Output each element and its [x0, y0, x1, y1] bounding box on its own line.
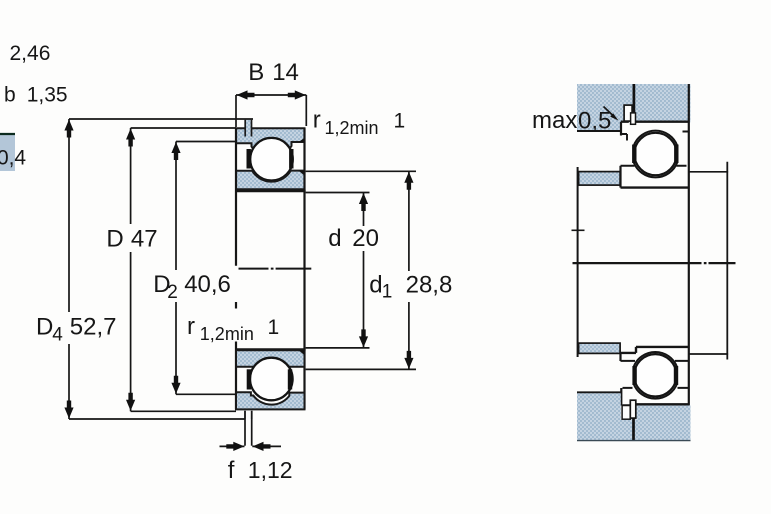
corner wedge inner ring top: [299, 171, 305, 176]
ball bottom right view: [634, 354, 676, 396]
housing bottom left lobe: [577, 392, 621, 441]
housing top block: [577, 84, 691, 122]
D2 arrow up: [171, 142, 180, 160]
housing top left lobe bottom edge: [577, 130, 621, 132]
inner ring bottom edge right view top: [621, 186, 690, 188]
cage bar bottom-right: [288, 369, 292, 389]
svg-text:1,35: 1,35: [27, 84, 68, 107]
housing bottom mid column: [620, 419, 636, 441]
shaft shoulder strip top: [579, 172, 621, 186]
svg-text:D: D: [36, 314, 53, 341]
ball top right view: [634, 133, 676, 175]
outer ring left face right view top: [620, 122, 622, 136]
corner wedge outer ring top: [299, 138, 305, 142]
bore bottom edge: [235, 348, 306, 350]
D2 arrow down: [171, 376, 180, 394]
ball top: [250, 138, 293, 181]
inner ring top edge right view bottom (stepped): [621, 347, 689, 353]
outer ring left face right view bottom: [620, 388, 622, 406]
outer ring lands top right view: [621, 132, 689, 141]
svg-text:1: 1: [382, 282, 393, 303]
svg-text:20: 20: [352, 225, 379, 252]
inner ring bottom lands right view: [621, 360, 689, 362]
raceway circle bottom right view: [633, 352, 677, 399]
snap ring side view bottom: [630, 400, 636, 418]
svg-text:52,7: 52,7: [70, 314, 117, 341]
svg-text:B: B: [248, 59, 264, 86]
f dimension: [220, 419, 282, 446]
inner ring top section: [236, 171, 305, 190]
D2 dimension: [176, 142, 236, 395]
svg-text:4: 4: [52, 325, 63, 346]
bearing right face line: [688, 84, 690, 441]
shaft shoulder strip bottom: [579, 343, 621, 353]
housing bottom edge: [577, 440, 691, 442]
left face line: [235, 128, 237, 409]
housing split line bottom: [632, 418, 635, 440]
f arrow left: [226, 442, 244, 451]
D4 arrow up: [64, 120, 73, 138]
cage bar top-left: [246, 149, 250, 169]
leader arrowhead: [610, 113, 618, 120]
reference tick top: [689, 171, 728, 173]
RIGHT-VIEW: [572, 84, 736, 441]
inner ring left face right view top: [619, 166, 621, 188]
outer ring top edge right view: [621, 120, 689, 122]
outer ring bottom edge right view: [623, 404, 689, 405]
cage bar bottom-left: [247, 369, 251, 389]
svg-text:1,2min: 1,2min: [325, 118, 379, 138]
snap groove notch bottom: [622, 406, 630, 420]
right face line: [303, 128, 305, 409]
svg-text:d: d: [369, 271, 382, 298]
svg-text:D: D: [106, 226, 123, 253]
housing bottom left lobe top edge: [577, 391, 621, 393]
svg-text:28,8: 28,8: [406, 271, 453, 298]
snap ring tab top: [245, 120, 251, 137]
D4 arrow down: [64, 401, 73, 419]
d dimension: [306, 193, 370, 348]
inner ring bottom section: [236, 350, 305, 377]
svg-text:2: 2: [167, 282, 178, 303]
corner wedge inner ring bottom: [299, 350, 305, 355]
svg-text:1,12: 1,12: [248, 457, 293, 483]
svg-text:r: r: [187, 313, 195, 340]
reference line right: [726, 162, 728, 360]
svg-text:47: 47: [131, 226, 158, 253]
cage bars top right view: [634, 145, 676, 164]
centerline left view: [239, 268, 312, 270]
B dimension: [236, 95, 306, 127]
outer ring top lands right view bottom: [623, 387, 689, 389]
d arrow down: [359, 329, 368, 347]
inner ring left face right view bottom: [619, 353, 621, 361]
cage bars bottom right view: [635, 366, 676, 385]
cage bar top-right: [289, 149, 293, 169]
raceway circle top right view: [634, 131, 678, 178]
svg-text:0,5: 0,5: [578, 108, 611, 135]
svg-text:r: r: [313, 107, 321, 134]
svg-text:d: d: [328, 225, 341, 252]
svg-text:40,6: 40,6: [184, 271, 231, 298]
svg-text:1: 1: [268, 316, 280, 339]
f arrow right: [253, 442, 271, 451]
reference tick bottom: [690, 353, 729, 355]
svg-text:f: f: [228, 457, 235, 484]
D4 dimension: [69, 119, 253, 419]
inner ring lands top right view: [621, 165, 687, 167]
bore top edge: [235, 190, 306, 192]
B arrow right: [288, 90, 306, 99]
housing bottom right part: [637, 405, 691, 441]
svg-text:1,2min: 1,2min: [200, 324, 254, 344]
svg-text:b: b: [4, 84, 16, 107]
d1 arrow down: [404, 351, 413, 369]
outer ring top section: [236, 128, 305, 157]
d1 arrow up: [404, 172, 413, 190]
svg-text:max: max: [532, 107, 577, 134]
D arrow down: [126, 393, 135, 411]
D dimension: [131, 128, 236, 411]
corner wedge outer ring bottom: [299, 393, 305, 397]
D arrow up: [126, 129, 135, 147]
housing split line top: [633, 84, 636, 121]
shaft shoulder face: [577, 167, 579, 357]
housing top left lobe: [577, 84, 621, 132]
d arrow up: [359, 193, 368, 211]
svg-text:,4: ,4: [9, 147, 27, 170]
svg-text:0: 0: [0, 147, 9, 170]
snap ring side view top: [624, 105, 632, 121]
break tick on shoulder face: [572, 229, 585, 231]
svg-text:14: 14: [272, 59, 299, 86]
snap groove notch top: [631, 113, 636, 124]
highlight box 0,4: [0, 135, 15, 172]
ball bottom: [250, 358, 293, 401]
d1 dimension: [306, 171, 416, 369]
leader line max 0,5: [604, 107, 615, 118]
outer ring bottom section: [236, 392, 305, 409]
LEFT-VIEW: [0, 90, 416, 451]
snap ring tab bottom (white slot): [245, 411, 252, 419]
svg-text:2,46: 2,46: [10, 42, 51, 65]
B arrow left: [237, 90, 255, 99]
svg-text:1: 1: [394, 110, 406, 133]
centerline right view: [573, 262, 736, 264]
